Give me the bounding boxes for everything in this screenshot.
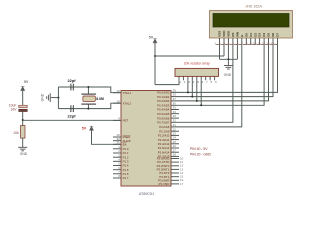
svg-text:16V: 16V [10,107,17,111]
pin XTAL1 19 [113,89,132,95]
wire crystal loop top [58,87,121,93]
LCD pin number ticks [216,43,278,45]
svg-text:19: 19 [117,89,121,93]
LCD pin numbers [215,42,275,46]
svg-text:GND: GND [41,93,45,101]
LCD LCD1 JHD 162A [210,5,293,38]
svg-text:10k: 10k [13,131,19,135]
pins P2.0-P2.7 labels [158,123,179,159]
svg-text:VSS: VSS [218,31,222,37]
svg-text:PIN 40 - 5V: PIN 40 - 5V [190,147,208,151]
svg-text:12: 12 [262,42,266,46]
wire to side ground [51,97,59,99]
svg-text:34: 34 [173,110,177,114]
wire LCD RW to gnd bus [236,45,238,59]
power 5V (reset rail) [21,80,29,91]
svg-text:VEE: VEE [227,31,231,37]
svg-text:13: 13 [266,42,270,46]
LCD pin name labels [218,30,280,37]
node reset junction [22,119,24,121]
node 5V junction [154,55,156,57]
wire EA to 5V [92,130,122,144]
capacitor C2 22pf (bottom) [68,105,77,118]
pin EA 31 [113,140,126,146]
node dot P0.2 [196,100,198,102]
wire P0.3 to LCD D4 [171,45,264,105]
wire RST net [23,119,121,121]
power 5V (EA pin) [82,126,94,131]
wire 5V to C3 [22,91,24,106]
wire LCD VEE to gnd bus [227,45,229,59]
svg-text:28: 28 [173,153,177,157]
svg-text:GND: GND [20,152,28,156]
svg-text:14: 14 [271,42,275,46]
wire P0.1 to LCD D6 [171,45,273,97]
svg-text:JHD 162A: JHD 162A [245,5,262,9]
svg-text:18: 18 [117,99,121,103]
wire array pin5 to P0.3 [200,80,202,105]
wire crystal loop bottom [58,103,121,108]
svg-text:D7: D7 [276,33,280,37]
svg-text:5V: 5V [149,35,154,39]
wire array pin2 to P0.0 [187,80,189,92]
pins P3.0-P3.7 [157,156,184,186]
wire P2.0 to LCD E [171,45,242,127]
wire P0.0 to LCD D7 [171,45,278,92]
svg-text:11: 11 [258,42,261,46]
wire array pin4 to P0.2 [196,80,198,101]
svg-text:10K resistor array: 10K resistor array [184,62,210,66]
ground (LCD) [224,66,233,70]
svg-text:AT89C51: AT89C51 [139,192,154,196]
svg-text:P1.7: P1.7 [123,176,129,180]
svg-text:RS: RS [231,33,235,37]
wire LCD VSS to gnd bus [219,45,221,59]
svg-text:D5: D5 [267,33,271,37]
svg-text:D0: D0 [244,33,248,37]
svg-text:P0.7/AD7: P0.7/AD7 [157,121,170,125]
wire 5V to LCD VDD [155,55,224,57]
wire C3 to junction [22,112,24,126]
wire LCD VDD down [223,45,225,56]
wire crystal loop left [57,87,59,109]
svg-text:31: 31 [117,140,121,144]
svg-text:P0.5/AD5: P0.5/AD5 [157,112,170,116]
svg-text:P0.2/AD2: P0.2/AD2 [157,99,170,103]
svg-text:VDD: VDD [222,30,226,37]
svg-text:22pf: 22pf [68,114,77,119]
svg-text:E: E [240,35,244,37]
wire P0.7 to LCD RS [171,45,233,122]
svg-text:17: 17 [180,182,184,186]
power 5V (array / LCD VDD) [149,35,157,43]
svg-text:D2: D2 [253,33,257,37]
svg-text:8.0M: 8.0M [96,97,104,101]
svg-text:D3: D3 [258,33,262,37]
node loop-gnd junction [57,97,59,99]
node dot P0.1 [191,96,193,98]
pin PSEN 29 [113,133,130,139]
svg-text:32: 32 [173,118,177,122]
svg-text:D4: D4 [262,33,266,37]
ground (crystal, rotated) [47,93,51,102]
svg-text:D1: D1 [249,33,253,37]
svg-text:5V: 5V [24,80,29,84]
svg-text:D6: D6 [271,33,275,37]
svg-text:XTAL2: XTAL2 [123,101,132,105]
node dot P0.0 [187,91,189,93]
wire gnd bus [220,58,238,60]
svg-text:37: 37 [173,97,177,101]
pins P0.4-P0.6 stubs [171,110,179,119]
pins P1.0-P1.7 [113,145,129,180]
svg-text:10: 10 [253,42,257,46]
wire to LCD ground [227,59,229,65]
pin XTAL2 18 [113,99,132,105]
pins P0.0-P0.7 labels [157,89,176,125]
microcontroller U1 AT89C51 [121,91,171,187]
wire 5V rail down to array [154,43,156,85]
wire P0.2 to LCD D5 [171,45,269,101]
svg-text:P3.7/RD: P3.7/RD [159,182,170,186]
pin RST 9 [113,117,129,123]
svg-text:EA: EA [123,143,127,147]
ground (reset rail) [18,147,27,151]
svg-text:5V: 5V [82,127,87,131]
resistor R1 10k [13,126,25,139]
capacitor C1 22pf (top) [68,78,77,90]
node gnd bus junction [227,58,229,60]
svg-text:22pf: 22pf [68,78,77,83]
wire array common to 5V rail [155,80,179,84]
LCD pin stubs [220,38,278,45]
svg-text:RW: RW [236,32,240,37]
svg-text:RST: RST [123,119,129,123]
svg-text:PIN 20 - GND: PIN 20 - GND [190,153,211,157]
node dot P0.3 [200,104,202,106]
wire R1 to ground [22,138,24,147]
pin ALE 30 [113,137,131,143]
svg-text:GND: GND [224,73,232,77]
resistor array RN1 [175,62,219,84]
crystal X1 8.0M [81,86,104,110]
wire array pin3 to P0.1 [191,80,193,96]
svg-text:XTAL1: XTAL1 [123,91,132,95]
capacitor C3 10uF 16V [9,104,27,112]
